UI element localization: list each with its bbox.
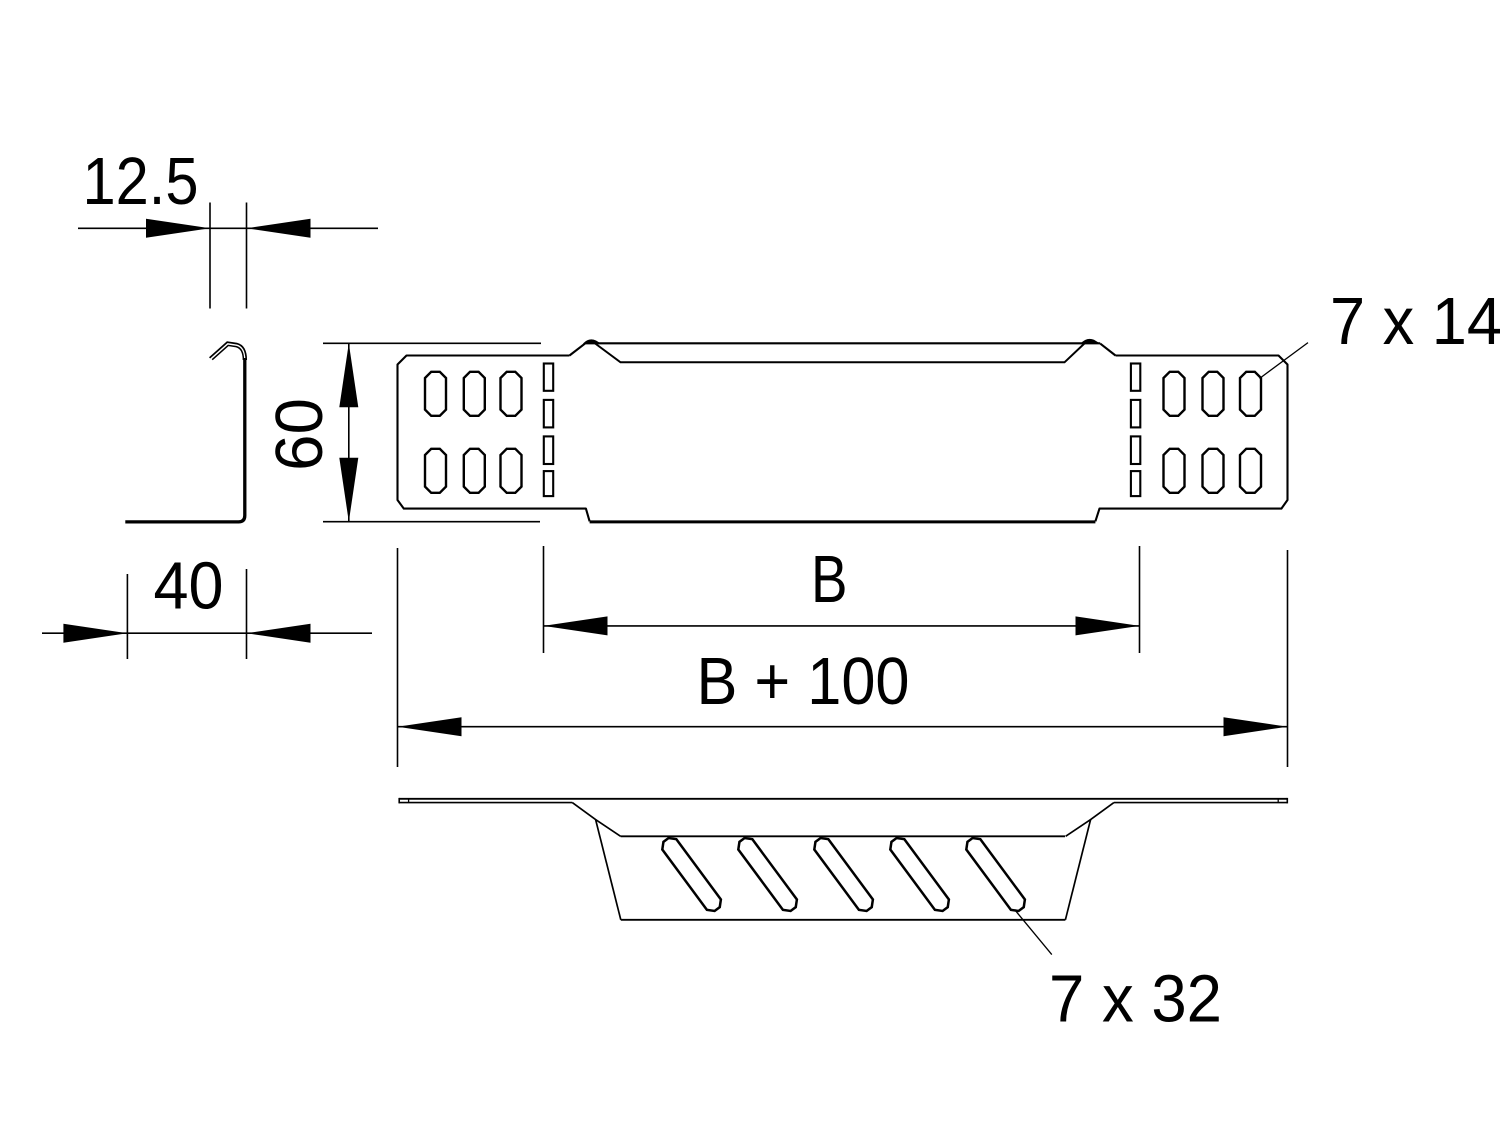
trough bottom edge [621, 919, 1066, 921]
left tab slot 7x14 row1 col3 [500, 372, 521, 416]
dimension 40 arrowhead left (outside) [63, 624, 127, 643]
right tab slot 7x14 row1 col1 [1164, 372, 1185, 416]
left bend line slot 1 [544, 364, 553, 391]
left bend line slot 2 [544, 400, 553, 428]
left tab slot 7x14 row1 col1 [425, 372, 446, 416]
dimension 12.5 extension line left [209, 203, 211, 309]
right bend line slot 3 [1131, 436, 1140, 464]
right tab slot 7x14 row1 col3 [1240, 372, 1261, 416]
left tab slot 7x14 row2 col2 [464, 449, 485, 493]
left bend line slot 3 [544, 436, 553, 464]
dimension B+100 arrowhead left [398, 717, 462, 736]
svg-text:7 x 14: 7 x 14 [1330, 285, 1500, 359]
dimension 40 extension line right [246, 569, 248, 659]
right bend line slot 1 [1131, 364, 1140, 391]
left junction hump [583, 339, 601, 343]
top view middle section bottom edge [590, 520, 1096, 523]
dimension 60 arrowhead bottom [339, 458, 358, 522]
leader line for 7x32 [1015, 910, 1052, 955]
dimension B+100 dimension line [398, 726, 1288, 728]
top view inner fold line with end diagonals [593, 342, 1087, 363]
right bend line slot 4 [1131, 471, 1140, 496]
trough left side wall [596, 820, 621, 920]
dimension B+100 extension line right [1287, 550, 1289, 767]
leader line for 7x14 [1260, 343, 1309, 379]
diagonal slot 7x32 no.1 [659, 835, 724, 914]
diagonal slot 7x32 no.5 [963, 835, 1028, 914]
J-profile hook lip inner line [212, 345, 243, 360]
dimension 60 dimension line [348, 343, 350, 521]
top view left transition diagonal [570, 344, 586, 356]
dimension B dimension line [544, 625, 1140, 627]
trough right side wall [1065, 820, 1090, 920]
front view flange right end tick [1277, 800, 1279, 803]
J-profile cross-section: bottom flange and web [125, 358, 245, 522]
top view left end tab outline [398, 356, 590, 522]
trough left upper diagonal to fold [572, 803, 620, 837]
dimension 12.5 extension line right [246, 203, 248, 309]
diagonal slot 7x32 no.4 [887, 835, 952, 914]
dimension 60 arrowhead top [339, 343, 358, 407]
trough fold line [621, 835, 1065, 837]
dimension 12.5 dimension line [78, 227, 378, 229]
diagonal slot 7x32 no.3 [811, 835, 876, 914]
trough right upper diagonal to fold [1066, 803, 1114, 837]
svg-text:40: 40 [154, 550, 224, 624]
dimension 40 arrowhead right (inside pointing left) [247, 624, 311, 643]
J-profile hook lip outer line [210, 342, 247, 360]
dimension 40 dimension line [42, 632, 372, 634]
front view flange bottom line left wing [399, 802, 572, 804]
dimension B extension line right [1139, 546, 1141, 653]
dimension 60 extension line bottom [323, 521, 540, 523]
front view flange top line [399, 798, 1287, 800]
dimension B+100 extension line left [397, 548, 399, 767]
dimension 12.5 arrowhead right [247, 219, 311, 238]
dimension B arrowhead left [544, 616, 608, 635]
svg-text:B: B [811, 543, 848, 617]
front view flange left end cap [398, 798, 400, 804]
front view flange left end tick [408, 800, 410, 803]
right bend line slot 2 [1131, 400, 1140, 428]
right tab slot 7x14 row2 col1 [1164, 449, 1185, 493]
dimension 12.5 arrowhead left [146, 219, 210, 238]
svg-text:7 x 32: 7 x 32 [1049, 962, 1222, 1036]
dimension B extension line left [543, 546, 545, 653]
svg-text:12.5: 12.5 [83, 145, 199, 219]
right junction hump [1081, 339, 1101, 344]
right tab slot 7x14 row2 col2 [1203, 449, 1224, 493]
svg-text:B + 100: B + 100 [697, 645, 910, 719]
diagonal slot 7x32 no.2 [735, 835, 800, 914]
left tab slot 7x14 row2 col1 [425, 449, 446, 493]
svg-text:60: 60 [263, 398, 337, 471]
dimension 40 extension line left [126, 574, 128, 659]
left bend line slot 4 [544, 471, 553, 496]
left tab slot 7x14 row1 col2 [464, 372, 485, 416]
dimension 60 extension line top [323, 342, 541, 344]
dimension B arrowhead right [1076, 616, 1140, 635]
front view flange right end cap [1286, 798, 1288, 804]
top view right transition diagonal [1100, 344, 1115, 356]
top view middle section top edge [585, 342, 1100, 344]
front view flange bottom line right wing [1114, 802, 1287, 804]
dimension B+100 arrowhead right [1224, 717, 1288, 736]
left tab slot 7x14 row2 col3 [500, 449, 521, 493]
right tab slot 7x14 row2 col3 [1240, 449, 1261, 493]
right tab slot 7x14 row1 col2 [1203, 372, 1224, 416]
top view right end tab outline [1095, 356, 1287, 522]
